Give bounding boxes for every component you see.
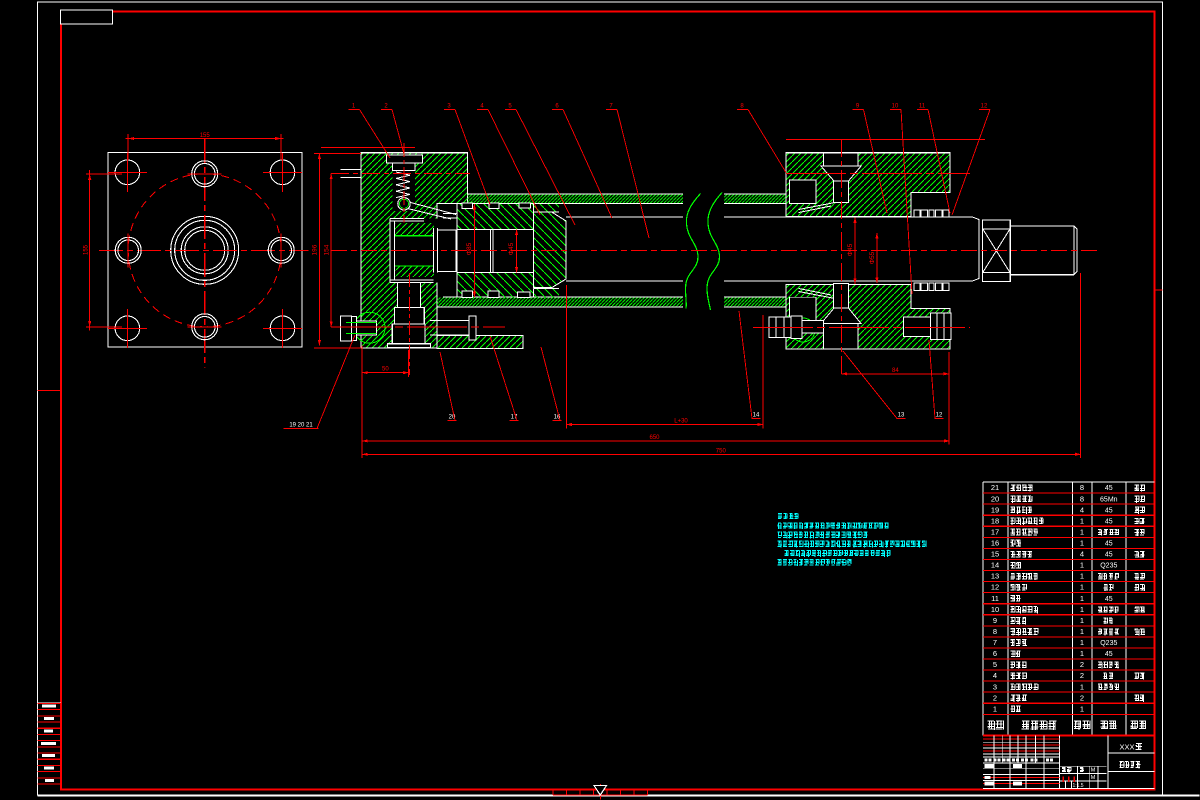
dim under gland [948,352,950,445]
text note 4 [777,559,851,566]
svg-text:1: 1 [1080,638,1084,647]
text [1011,529,1039,536]
svg-text:1:1.5: 1:1.5 [1072,783,1083,789]
svg-text:14: 14 [753,413,760,419]
foot rail under barrel [437,335,523,348]
left margin strip table [38,702,62,704]
gland bottom bolt [834,283,849,308]
svg-text:10: 10 [892,104,899,110]
svg-text:Q235: Q235 [1100,640,1117,647]
svg-text:2: 2 [993,693,997,702]
text tech requirements title [778,513,799,519]
cushion sleeve C-channel [389,218,391,282]
svg-text:19 20 21: 19 20 21 [289,423,313,429]
break band [685,190,723,312]
text [1135,551,1145,557]
text [1011,661,1027,668]
text [1135,485,1146,492]
bolt circle centerline top [331,172,470,174]
svg-text:4: 4 [1080,505,1084,514]
text [1011,584,1027,591]
svg-text:1: 1 [1080,616,1084,625]
svg-text:12: 12 [981,104,988,110]
gland right-bottom bolt [903,317,930,336]
gland lower slanted lines [799,292,836,299]
text [1074,721,1090,730]
valve ball [398,198,410,210]
gland upper hatched block [786,153,950,217]
gland lower seal stack [914,283,920,290]
rod diameter dim (gland) [854,217,856,283]
svg-text:Φ85: Φ85 [466,242,473,255]
rod bore diameter dim [516,229,518,272]
text [1098,684,1119,690]
text [1011,484,1033,491]
spacer ring [432,228,434,273]
piston diameter dim [473,204,475,297]
break line right [707,193,722,311]
rod end shoulder [973,217,979,281]
svg-text:1: 1 [1080,572,1084,581]
svg-text:1: 1 [1080,649,1084,658]
text [1103,617,1112,624]
text [1135,518,1145,524]
svg-text:8: 8 [993,627,997,636]
text [1011,573,1038,580]
corner hole 1 [115,160,140,185]
text [988,720,1004,730]
barrel bore bottom line [443,296,683,298]
svg-text:11: 11 [919,104,926,110]
head port circle [354,312,385,343]
svg-text:20: 20 [991,494,999,503]
text [1011,518,1044,525]
svg-text:8: 8 [1080,494,1084,503]
svg-text:155: 155 [200,133,211,139]
dim L+30 [565,285,567,429]
svg-text:1: 1 [1080,605,1084,614]
gland upper slanted lines [799,202,836,209]
text [1011,562,1022,569]
piston rod bottom line [566,280,683,282]
bolt circle (red dashed) [128,174,281,327]
main centerline [331,249,1098,251]
text [1011,672,1027,679]
svg-text:45: 45 [1105,596,1113,603]
construction line over gland [786,138,985,140]
svg-text:3: 3 [993,682,997,691]
svg-text:15: 15 [991,550,999,559]
flange left dimension 155 [86,173,122,175]
svg-text:17: 17 [991,527,999,536]
svg-text:8: 8 [1080,483,1084,492]
corner hole 4 [270,316,295,341]
center triangle marker [594,786,607,796]
gland left-bottom bolt (hex head) [769,317,791,338]
svg-text:16: 16 [991,539,999,548]
text [1135,529,1145,536]
svg-text:Φ45: Φ45 [847,243,854,256]
text [1011,706,1021,713]
svg-text:10: 10 [991,605,999,614]
text [1098,529,1119,536]
piston bore corridor [457,228,533,230]
text [1011,650,1021,657]
top-left label box [61,10,113,24]
cushion valve plug [387,155,423,163]
text [1098,628,1119,635]
svg-text:155: 155 [84,244,90,255]
dim 750 [1080,273,1082,458]
gland lower port cavity [789,297,816,320]
svg-text:750: 750 [716,448,727,454]
text [1011,639,1027,646]
svg-text:196: 196 [312,244,319,255]
text [1080,767,1084,772]
text [1062,767,1071,773]
text [1135,673,1145,680]
text [1011,617,1027,624]
valve vertical centerline [403,143,405,223]
svg-text:1: 1 [1080,704,1084,713]
flange centerline vertical [204,139,206,368]
bottom scale bar [553,794,648,796]
tie-rod stud left [430,319,469,321]
flange centerline horizontal [99,249,309,251]
text [1135,573,1146,580]
svg-text:1: 1 [1080,594,1084,603]
text note 2 [777,532,867,539]
text [1101,721,1117,730]
head bottom bolt [341,316,352,341]
text [1135,496,1146,503]
gland top bolt [824,153,858,166]
break line left [686,194,701,309]
mid hole 1 [192,161,218,187]
svg-text:45: 45 [1105,507,1113,514]
flange plate square outline [108,153,302,348]
svg-text:50: 50 [382,367,389,373]
text [1098,662,1119,669]
svg-text:Q235: Q235 [1100,563,1117,570]
svg-text:13: 13 [991,572,999,581]
svg-text:1: 1 [1080,527,1084,536]
gland bolt vertical centerline [841,139,843,377]
piston rod top line [566,216,683,218]
svg-text:12: 12 [991,583,999,592]
head center cavity [390,218,437,282]
text [1136,743,1142,750]
text [1011,540,1022,547]
svg-text:1: 1 [1080,516,1084,525]
svg-text:5: 5 [993,660,997,669]
text [1011,684,1039,691]
text note 1 [777,522,888,529]
svg-text:45: 45 [1105,552,1113,559]
port vertical centerline [409,273,411,375]
head hidden-bolt lines top-left [341,169,361,171]
svg-text:4: 4 [1080,550,1084,559]
bolt circle centerline bottom [331,326,505,328]
svg-text:650: 650 [649,435,660,441]
valve spring [396,172,410,198]
text [1135,507,1146,514]
svg-text:13: 13 [898,413,905,419]
svg-text:21: 21 [991,483,999,492]
bolt span dim [330,174,332,327]
svg-text:Φ55: Φ55 [869,251,876,264]
gland upper port cavity [789,180,816,203]
svg-text:1: 1 [1080,682,1084,691]
text [1011,496,1033,503]
text [1011,595,1021,602]
mid hole 3 [115,237,141,263]
gland bore dim [876,233,878,283]
text [1011,628,1039,635]
mid hole 2 [192,314,218,340]
piston joint lines [490,229,492,272]
text [1011,551,1033,558]
svg-text:2: 2 [1080,671,1084,680]
text [1011,695,1027,702]
rod end spigot [1010,226,1077,275]
svg-text:2: 2 [1080,693,1084,702]
tie-rod nut left [469,316,476,340]
rod collar [534,212,567,287]
valve passage lines [411,203,457,215]
text note 3 [777,541,926,548]
mid hole 4 [268,237,294,263]
text [1098,606,1119,613]
corner hole 3 [115,316,140,341]
svg-text:1: 1 [993,704,997,713]
barrel bore top line [443,202,683,204]
svg-text:19: 19 [991,505,999,514]
barrel bottom wall [437,297,683,307]
piston hatched body [457,204,559,212]
svg-text:L+30: L+30 [674,419,688,425]
svg-text:65Mn: 65Mn [1100,496,1118,503]
svg-text:Φ45: Φ45 [508,242,515,255]
head port bore [397,283,420,308]
svg-text:7: 7 [993,638,997,647]
svg-text:14: 14 [991,561,999,570]
svg-text:XXX: XXX [1119,743,1134,752]
svg-text:6: 6 [993,649,997,658]
barrel top wall [468,194,684,203]
svg-text:M: M [1091,768,1096,774]
rod thread section (crossed box) [983,220,1011,282]
title block [983,788,1154,790]
frame tick right [1155,289,1163,291]
svg-text:1: 1 [1080,539,1084,548]
svg-text:M: M [1091,775,1096,781]
text [1103,584,1113,591]
dim 50 under head [361,346,363,458]
text [1120,761,1141,769]
BOM table [983,481,1154,483]
text [1011,507,1033,514]
svg-text:154: 154 [324,244,331,255]
text [1103,673,1113,679]
text [1022,720,1057,730]
svg-text:18: 18 [991,516,999,525]
piston seals [462,203,472,209]
text [1098,573,1119,580]
flange top dimension 155 [127,134,129,160]
gland port circle [791,318,815,342]
text [1135,695,1145,702]
text [1135,584,1146,591]
svg-text:4: 4 [993,671,997,680]
svg-text:45: 45 [1105,518,1113,525]
svg-text:45: 45 [1105,541,1113,548]
gland upper seal stack [914,210,920,217]
svg-text:45: 45 [1105,485,1113,492]
text [1135,606,1146,612]
svg-text:11: 11 [991,594,999,603]
frame tick left [38,390,62,392]
head cap hatched body [361,153,468,348]
svg-text:1: 1 [1080,561,1084,570]
construction line y147 [321,147,415,149]
svg-text:9: 9 [993,616,997,625]
svg-text:84: 84 [892,368,899,374]
text [1011,606,1038,613]
text note 3b [785,550,891,557]
rod end stub [438,230,457,271]
flange center bore circles [171,216,239,284]
text [1131,721,1147,730]
head port fitting [395,308,425,324]
gland lower hatched block [786,285,950,349]
svg-text:45: 45 [1105,651,1113,658]
text [1135,628,1146,635]
svg-text:1: 1 [1080,583,1084,592]
screw pocket (cushion valve) [393,163,416,211]
svg-text:2: 2 [1080,660,1084,669]
svg-text:12: 12 [936,413,943,419]
corner hole 2 [270,160,295,185]
svg-text:1: 1 [1080,627,1084,636]
overall height dim (left of head) [314,152,361,154]
dim 650 [362,440,950,442]
